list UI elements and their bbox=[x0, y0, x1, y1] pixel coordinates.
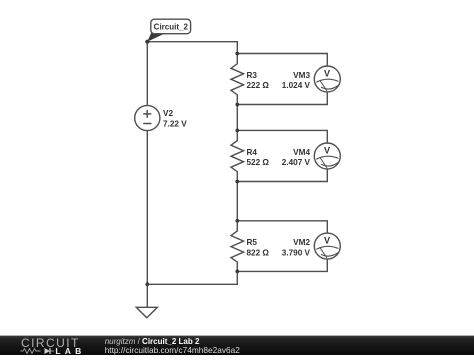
svg-text:V: V bbox=[324, 68, 330, 78]
svg-text:V: V bbox=[324, 145, 330, 155]
svg-text:2.407 V: 2.407 V bbox=[282, 158, 311, 167]
svg-text:V: V bbox=[324, 235, 330, 245]
svg-text:LAB: LAB bbox=[55, 346, 85, 355]
svg-text:http://circuitlab.com/c74mh8e2: http://circuitlab.com/c74mh8e2av6a2 bbox=[105, 345, 241, 355]
svg-text:VM2: VM2 bbox=[293, 238, 310, 247]
svg-text:822 Ω: 822 Ω bbox=[247, 248, 270, 257]
svg-text:R3: R3 bbox=[247, 71, 258, 80]
svg-text:R4: R4 bbox=[247, 148, 258, 157]
svg-text:7.22 V: 7.22 V bbox=[163, 120, 187, 129]
svg-text:222 Ω: 222 Ω bbox=[247, 81, 270, 90]
svg-text:R5: R5 bbox=[247, 238, 258, 247]
svg-text:522 Ω: 522 Ω bbox=[247, 158, 270, 167]
svg-text:3.790 V: 3.790 V bbox=[282, 248, 311, 257]
svg-text:V2: V2 bbox=[163, 109, 173, 118]
svg-text:VM3: VM3 bbox=[293, 71, 310, 80]
svg-text:Circuit_2: Circuit_2 bbox=[154, 23, 189, 32]
svg-text:1.024 V: 1.024 V bbox=[282, 81, 311, 90]
svg-text:VM4: VM4 bbox=[293, 148, 310, 157]
